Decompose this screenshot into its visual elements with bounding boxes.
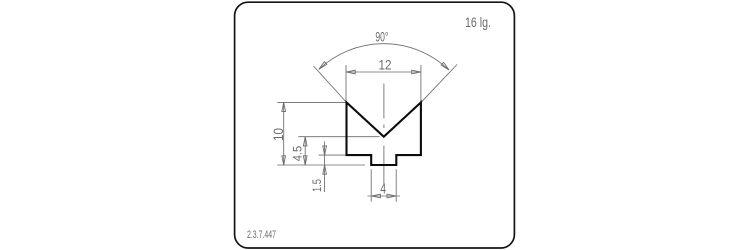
arrow down-to-tip dim 1.5 upper [323, 146, 327, 155]
dimension line 4 [368, 195, 401, 197]
svg-text:2.3.7.447: 2.3.7.447 [247, 229, 276, 241]
arrow right dim 12 [412, 70, 421, 74]
angle extension line left diagonal [314, 66, 347, 102]
arrow down dim 4.5 [303, 156, 307, 165]
arrow up-to-tip dim 1.5 lower [323, 165, 327, 174]
arrow down dim 10 [282, 156, 286, 165]
extension line V-bottom (y=136.7) [298, 136, 379, 138]
extension line tongue bottom (y=165) [277, 164, 365, 166]
extension line top (profile top edge, y=102.4) [277, 101, 347, 103]
extension line 4 left vertical [370, 169, 372, 201]
svg-text:90°: 90° [375, 29, 388, 45]
dimension line 10 [283, 102, 285, 165]
svg-text:4: 4 [380, 180, 386, 197]
svg-text:10: 10 [270, 128, 286, 141]
drawing sheet frame [235, 2, 515, 248]
extension line 12 left vertical [345, 65, 347, 102]
arrow up dim 4.5 [303, 137, 307, 146]
dimension line 4.5 [304, 137, 306, 165]
arrow left dim 12 [346, 70, 355, 74]
svg-text:16 lg.: 16 lg. [465, 14, 491, 30]
dimension line 1.5 [324, 142, 326, 193]
svg-text:4.5: 4.5 [290, 146, 304, 162]
arrow right dim 4 [387, 194, 396, 198]
extension line 12 right vertical [420, 65, 422, 102]
arc arrowhead right [441, 62, 449, 70]
arc arrowhead left [319, 62, 327, 70]
extension line 4 right vertical [395, 169, 397, 201]
svg-text:12: 12 [379, 56, 392, 72]
svg-text:1.5: 1.5 [310, 179, 324, 192]
arrow left dim 4 [371, 194, 380, 198]
dimension line 12 [346, 71, 421, 73]
centerline vertical axis [383, 84, 385, 185]
arrow up dim 10 [282, 102, 286, 111]
angle dimension arc 90 [319, 44, 449, 70]
extension line body bottom (y=155.1) [319, 154, 348, 156]
angle extension line right diagonal [421, 65, 457, 103]
die profile outline [347, 102, 421, 165]
